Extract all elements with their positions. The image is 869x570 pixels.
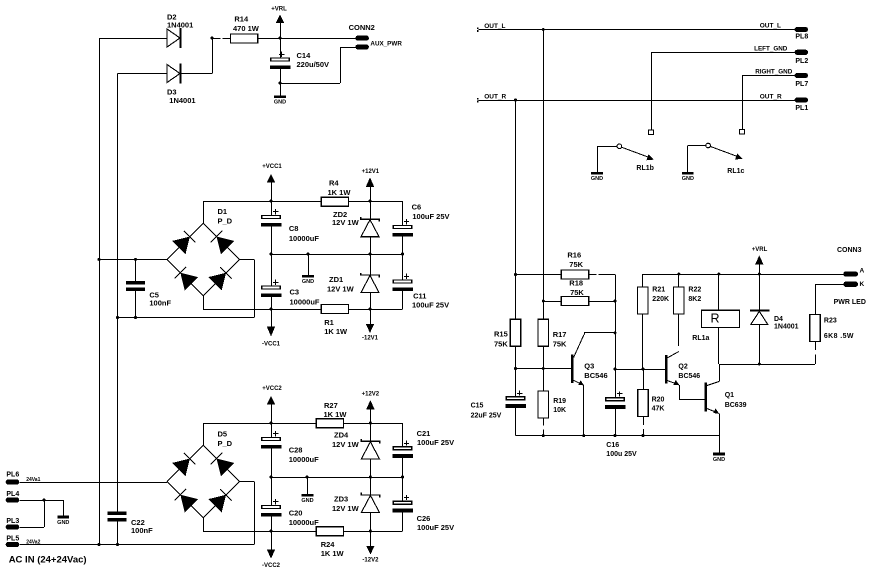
junction Q3 collector node: [614, 331, 617, 334]
svg-text:C8: C8: [289, 224, 299, 233]
svg-text:10K: 10K: [553, 407, 566, 414]
junction Q3 base row: [514, 367, 517, 370]
svg-text:C21: C21: [417, 429, 431, 438]
junction D2/D3 cathodes: [211, 37, 214, 40]
capacitor C22 100nF: [108, 512, 154, 545]
svg-text:C16: C16: [606, 442, 619, 449]
resistor R15 75K: [494, 319, 521, 348]
wire LEFT_GND: [651, 52, 795, 54]
junction bus1 to 24Va2: [98, 543, 101, 546]
svg-text:C15: C15: [471, 403, 484, 410]
svg-text:PL3: PL3: [6, 518, 19, 525]
svg-text:BC639: BC639: [725, 402, 747, 409]
wire AC bus1 vertical: [99, 38, 101, 545]
svg-text:12V 1W: 12V 1W: [327, 285, 355, 294]
wire R17 to R19: [543, 346, 545, 391]
wire PL4 to ground: [19, 500, 63, 502]
wire D3 cathode to junction: [181, 38, 213, 74]
junction OUT_L sense: [542, 28, 545, 31]
resistor R4 1K 1W: [321, 179, 351, 207]
wire bridge D1 AC2 routing: [118, 259, 255, 317]
svg-text:R27: R27: [324, 401, 338, 410]
wire -VCC2 rail: [203, 531, 402, 533]
svg-text:100uF 25V: 100uF 25V: [412, 300, 449, 309]
junction ZD3 top: [369, 476, 372, 479]
wire PL3 to PL4: [19, 500, 44, 528]
svg-text:CONN3: CONN3: [837, 247, 862, 254]
svg-text:OUT_L: OUT_L: [760, 22, 781, 29]
wire coil bottom node: [719, 364, 815, 366]
svg-text:10000uF: 10000uF: [289, 518, 319, 527]
node AUX junction: [279, 37, 282, 40]
svg-text:R: R: [710, 312, 719, 326]
wire bridge D1 top to +rail: [203, 201, 205, 223]
svg-text:12V 1W: 12V 1W: [332, 440, 360, 449]
svg-text:GND: GND: [682, 176, 694, 182]
junction rail/+VRL: [758, 273, 761, 276]
wire R19 to rail (gap): [543, 418, 545, 436]
resistor R24 1K 1W: [316, 527, 344, 558]
svg-text:100uF 25V: 100uF 25V: [417, 523, 454, 532]
net stub OUT_R: [477, 94, 507, 103]
svg-text:PL6: PL6: [6, 472, 19, 479]
junction mid rail / GND 1: [307, 253, 310, 256]
junction bus2/AC2: [116, 316, 119, 319]
junction C14 bottom: [279, 82, 282, 85]
svg-text:220u/50V: 220u/50V: [297, 60, 330, 69]
svg-text:ZD3: ZD3: [334, 495, 348, 504]
net stub OUT_L: [477, 23, 506, 32]
wire Q2 base row: [615, 369, 665, 371]
svg-text:100uF 25V: 100uF 25V: [417, 438, 454, 447]
svg-text:RL1a: RL1a: [692, 335, 709, 342]
ground (AC input): [57, 500, 69, 526]
svg-text:GND: GND: [302, 279, 314, 285]
capacitor C14 220u/50V: [270, 38, 329, 95]
resistor R17 75K: [538, 319, 567, 348]
capacitor C6 100uF 25V: [392, 201, 449, 254]
svg-text:AC IN (24+24Vac): AC IN (24+24Vac): [9, 554, 87, 565]
svg-text:GND: GND: [591, 176, 603, 182]
junction rail/R19: [542, 434, 545, 437]
power -VCC2 arrow: [262, 531, 281, 569]
junction +VCC1: [270, 200, 273, 203]
diode D3 1N4001: [118, 64, 196, 106]
junction C26 top: [401, 476, 404, 479]
svg-text:OUT_R: OUT_R: [760, 93, 782, 100]
connector PL3 (GND): [6, 518, 20, 529]
svg-text:RL1c: RL1c: [727, 168, 744, 175]
connector PL1 OUT_R: [760, 93, 809, 112]
svg-text:D1: D1: [218, 207, 228, 216]
relay contact RL1c: [688, 76, 745, 176]
ground (C14): [274, 83, 286, 106]
connector CONN3 (power LED): [834, 247, 866, 306]
svg-text:-VCC2: -VCC2: [262, 563, 281, 569]
junction C5 bottom: [134, 316, 137, 319]
svg-text:PWR LED: PWR LED: [834, 299, 866, 306]
zener ZD3 12V 1W: [332, 477, 380, 531]
svg-text:OUT_R: OUT_R: [484, 94, 506, 101]
wire Q3 collector to summing node: [584, 332, 615, 334]
connector CONN2 AUX_PWR: [349, 23, 403, 50]
svg-text:R19: R19: [553, 398, 566, 405]
svg-text:PL8: PL8: [795, 34, 808, 41]
connector PL4 (GND): [6, 491, 20, 503]
svg-text:75K: 75K: [570, 288, 584, 297]
svg-text:PL1: PL1: [795, 105, 808, 112]
svg-text:C3: C3: [290, 288, 300, 297]
resistor R14 470 1W: [230, 15, 259, 43]
svg-text:1K 1W: 1K 1W: [321, 549, 345, 558]
junction R18/summing: [614, 300, 617, 303]
junction PL4/PL3: [43, 499, 46, 502]
capacitor C8 10000uF: [261, 201, 320, 254]
junction node/D4: [758, 363, 761, 366]
wire -VCC1 rail: [203, 309, 402, 311]
svg-text:BC546: BC546: [678, 373, 700, 380]
wire bridge D5 bottom to -rail: [203, 518, 205, 531]
diode D4 1N4001 (flyback): [750, 274, 798, 364]
svg-text:C26: C26: [417, 514, 431, 523]
ground (RL1b): [591, 146, 603, 182]
zener ZD1 12V 1W: [327, 254, 379, 309]
resistor R1 1K 1W: [321, 305, 348, 336]
svg-text:22uF 25V: 22uF 25V: [471, 413, 502, 420]
junction rail/Q3 emitter: [582, 434, 585, 437]
svg-text:PL2: PL2: [795, 58, 808, 65]
junction rail/R22: [677, 273, 680, 276]
svg-text:+VRL: +VRL: [271, 7, 287, 13]
junction ZD1 top: [369, 253, 372, 256]
ground (RL1c): [682, 146, 694, 183]
svg-text:-12V1: -12V1: [362, 336, 379, 342]
wire bridge D1 bottom to -rail: [203, 296, 205, 309]
power -12V2 arrow: [362, 531, 379, 564]
junction rail/R20: [642, 434, 645, 437]
resistor R19 10K: [538, 391, 566, 418]
junction R18 row: [542, 300, 545, 303]
connector PL8 OUT_L: [760, 22, 809, 40]
svg-text:P_D: P_D: [218, 217, 233, 226]
svg-text:75K: 75K: [553, 340, 567, 349]
junction -12V1: [369, 308, 372, 311]
svg-text:1K 1W: 1K 1W: [328, 188, 352, 197]
svg-text:470 1W: 470 1W: [233, 24, 260, 33]
wire C14 bottom to CONN2 pin2: [280, 47, 355, 84]
svg-text:Q2: Q2: [678, 363, 687, 370]
svg-text:10000uF: 10000uF: [290, 298, 320, 307]
svg-text:PL7: PL7: [795, 81, 808, 88]
ground (Q1 emitter): [713, 436, 725, 463]
resistor R23 6K8 .5W: [810, 315, 854, 342]
resistor R16 75K: [516, 250, 616, 279]
wire mid rail (GND) 1: [271, 254, 403, 256]
svg-text:1N4001: 1N4001: [167, 21, 193, 30]
svg-text:10000uF: 10000uF: [289, 455, 319, 464]
wire bridge D5 AC2 routing: [19, 481, 254, 544]
svg-text:C28: C28: [289, 446, 303, 455]
resistor R22 8K2: [674, 274, 702, 352]
svg-text:R23: R23: [824, 317, 837, 324]
capacitor C5 100nF: [126, 259, 171, 317]
junction Q2 base node: [614, 368, 617, 371]
svg-text:C14: C14: [297, 51, 312, 60]
svg-text:K: K: [860, 281, 865, 288]
wire +VRL rail: [643, 274, 843, 276]
label AC IN: [9, 554, 87, 565]
junction OUT_R sense: [514, 99, 517, 102]
svg-text:R18: R18: [569, 279, 583, 288]
junction C5 top: [134, 258, 137, 261]
capacitor C15 22uF 25V: [471, 390, 526, 435]
svg-text:R14: R14: [234, 15, 249, 24]
svg-text:R4: R4: [329, 179, 339, 188]
wire R23 to node (gap): [815, 342, 817, 364]
svg-text:75K: 75K: [569, 260, 583, 269]
capacitor C16 100u 25V: [605, 391, 637, 458]
wire Q3 base row: [516, 368, 572, 370]
zener ZD4 12V 1W: [332, 423, 380, 477]
power +VRL arrow (relay): [752, 247, 768, 274]
svg-text:BC546: BC546: [584, 371, 607, 380]
bridge rectifier D5 P_D: [167, 430, 239, 518]
svg-text:C6: C6: [412, 203, 422, 212]
svg-text:100nF: 100nF: [131, 526, 153, 535]
junction rail/C16: [614, 434, 617, 437]
svg-text:ZD1: ZD1: [329, 275, 343, 284]
svg-text:+VRL: +VRL: [752, 247, 768, 253]
wire LED K to R23: [815, 284, 843, 314]
connector PL7 RIGHT_GND: [755, 69, 808, 88]
connector PL5 (24Va2): [6, 536, 41, 547]
bridge rectifier D1 P_D: [167, 207, 239, 296]
junction C22 bottom: [116, 543, 119, 546]
diode D2 1N4001: [99, 13, 193, 48]
svg-text:ZD4: ZD4: [334, 431, 349, 440]
wire mid rail (GND) 2: [271, 477, 403, 479]
svg-text:1K 1W: 1K 1W: [324, 327, 348, 336]
svg-text:D5: D5: [218, 430, 228, 439]
wire AC bus2 vertical: [117, 74, 119, 512]
power -12V1 arrow: [362, 309, 379, 342]
svg-text:6K8 .5W: 6K8 .5W: [824, 333, 854, 340]
svg-text:1N4001: 1N4001: [774, 324, 799, 331]
svg-text:R20: R20: [652, 397, 665, 404]
wire OUT_L: [479, 29, 795, 31]
svg-text:D3: D3: [167, 87, 177, 96]
capacitor C28 10000uF: [261, 423, 319, 477]
svg-text:12V 1W: 12V 1W: [332, 504, 360, 513]
relay contact RL1b: [597, 52, 654, 172]
wire OUT_L sense vertical: [543, 30, 545, 320]
power +12V2 arrow: [362, 392, 380, 424]
wire summing node vertical: [615, 275, 617, 398]
transistor Q2 BC546: [665, 352, 705, 400]
svg-text:GND: GND: [301, 498, 313, 504]
svg-text:R22: R22: [688, 286, 701, 293]
power -VCC1 arrow: [262, 309, 281, 347]
svg-text:R17: R17: [553, 330, 567, 339]
svg-text:100nF: 100nF: [149, 299, 171, 308]
svg-text:PL4: PL4: [6, 491, 19, 498]
svg-text:12V 1W: 12V 1W: [332, 218, 360, 227]
svg-text:-VCC1: -VCC1: [262, 341, 281, 347]
transistor Q3 BC546: [571, 333, 608, 436]
wire OUT_R sense vertical: [515, 100, 517, 319]
svg-text:47K: 47K: [652, 405, 665, 412]
capacitor C26 100uF 25V: [392, 477, 454, 532]
junction +12V2: [369, 422, 372, 425]
svg-text:OUT_L: OUT_L: [484, 23, 505, 30]
svg-text:100u 25V: 100u 25V: [606, 451, 637, 458]
wire +VCC2 rail: [203, 423, 402, 425]
svg-text:C11: C11: [413, 291, 426, 300]
capacitor C11 100uF 25V: [392, 254, 449, 309]
svg-text:GND: GND: [57, 520, 69, 526]
svg-text:GND: GND: [274, 100, 286, 106]
wire RIGHT_GND: [742, 75, 795, 77]
svg-text:R21: R21: [652, 286, 665, 293]
svg-text:220K: 220K: [652, 296, 669, 303]
wire bus1 to bridge D1 AC1: [99, 259, 167, 261]
svg-text:CONN2: CONN2: [349, 23, 375, 32]
svg-text:100uF 25V: 100uF 25V: [412, 212, 449, 221]
resistor R20 47K: [638, 369, 665, 436]
svg-text:10000uF: 10000uF: [289, 234, 319, 243]
svg-text:PL5: PL5: [6, 536, 19, 543]
svg-text:Q1: Q1: [725, 392, 734, 399]
svg-text:D4: D4: [774, 316, 783, 323]
junction R21-R20/base row: [642, 368, 645, 371]
power +VRL arrow (aux): [271, 7, 287, 38]
capacitor C3 10000uF: [261, 254, 320, 309]
junction bus1/AC1: [98, 258, 101, 261]
junction R16 row: [514, 273, 517, 276]
resistor R18 75K: [543, 279, 615, 306]
junction rail/RL1a: [717, 273, 720, 276]
junction mid rail / GND 2: [306, 476, 309, 479]
wire 24Va1 to bridge D5: [19, 482, 167, 484]
wire +VCC1 rail: [203, 201, 402, 203]
svg-text:+VCC1: +VCC1: [262, 164, 282, 170]
wire bottom rail (emitter bus): [516, 435, 720, 437]
resistor R27 1K 1W: [316, 401, 347, 428]
svg-text:75K: 75K: [494, 339, 508, 348]
connector PL6 (24Va1): [6, 472, 41, 485]
svg-text:-12V2: -12V2: [362, 558, 379, 564]
wire OUT_R: [479, 100, 795, 102]
junction +VCC2: [270, 422, 273, 425]
power +VCC2 arrow: [262, 386, 282, 423]
svg-text:R16: R16: [567, 250, 581, 259]
svg-text:8K2: 8K2: [688, 296, 701, 303]
svg-text:C20: C20: [289, 508, 303, 517]
capacitor C20 10000uF: [261, 477, 319, 531]
junction C28/C20 midpoint: [270, 476, 273, 479]
junction -12V2: [369, 530, 372, 533]
svg-text:LEFT_GND: LEFT_GND: [754, 46, 788, 53]
svg-text:AUX_PWR: AUX_PWR: [370, 40, 402, 47]
svg-text:P_D: P_D: [218, 439, 233, 448]
relay coil RL1a: [692, 274, 739, 364]
svg-text:+VCC2: +VCC2: [262, 386, 282, 392]
capacitor C21 100uF 25V: [392, 423, 454, 477]
transistor Q1 BC639: [705, 364, 747, 436]
power +VCC1 arrow: [262, 164, 282, 201]
power +12V1 arrow: [362, 169, 380, 201]
svg-text:+12V1: +12V1: [362, 169, 380, 175]
junction -VCC1: [270, 308, 273, 311]
junction +12V1: [369, 200, 372, 203]
svg-text:R24: R24: [321, 540, 336, 549]
wire R14 to CONN2: [258, 38, 356, 40]
wire junction to R14: [212, 38, 230, 40]
svg-text:RIGHT_GND: RIGHT_GND: [755, 69, 793, 76]
junction C8/C3 midpoint: [270, 253, 273, 256]
zener ZD2 12V 1W: [332, 201, 379, 254]
wire R15 to Q3 base node: [515, 346, 517, 397]
ground (bridge1 mid rail): [302, 254, 314, 285]
junction -VCC2: [270, 530, 273, 533]
svg-text:RL1b: RL1b: [636, 165, 654, 172]
junction base row / R17-R19: [542, 367, 545, 370]
svg-text:1K 1W: 1K 1W: [324, 410, 348, 419]
svg-text:1N4001: 1N4001: [169, 96, 195, 105]
wire bridge D5 top to +rail: [203, 423, 205, 445]
svg-text:24Va2: 24Va2: [26, 539, 40, 545]
svg-text:GND: GND: [713, 457, 725, 463]
svg-text:Q3: Q3: [584, 362, 594, 371]
connector PL2 LEFT_GND: [754, 46, 808, 66]
svg-text:+12V2: +12V2: [362, 392, 380, 398]
svg-text:A: A: [860, 268, 865, 275]
ground (bridge2 mid rail): [301, 477, 313, 504]
svg-text:R15: R15: [494, 330, 508, 339]
svg-text:R1: R1: [324, 318, 334, 327]
resistor R21 220K: [638, 274, 669, 369]
junction C11 top: [401, 253, 404, 256]
